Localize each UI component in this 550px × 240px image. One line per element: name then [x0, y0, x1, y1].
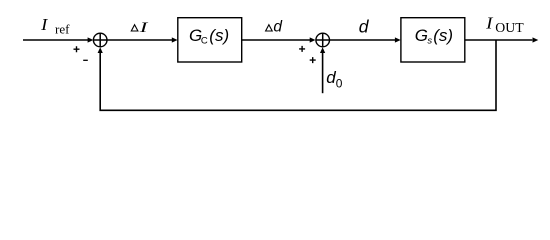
- plus sign at S1 input: [74, 46, 80, 52]
- label delta-I: [131, 25, 138, 31]
- svg-text:C: C: [201, 36, 208, 47]
- wire: S1 to block GC: [107, 39, 172, 41]
- wire: GC to summing junction S2: [242, 39, 310, 41]
- svg-text:s: s: [427, 36, 432, 47]
- svg-text:I: I: [138, 20, 149, 36]
- svg-text:d: d: [273, 19, 283, 36]
- summing junction S1: [93, 33, 107, 47]
- wire: feedback from output tap down, left, and up into S1: [100, 40, 496, 110]
- svg-text:0: 0: [336, 77, 343, 91]
- plus sign at S2 horizontal input: [299, 46, 305, 52]
- svg-text:(s): (s): [209, 26, 229, 45]
- block GS(s): [401, 18, 465, 62]
- svg-text:G: G: [415, 26, 428, 45]
- plus sign at S2 vertical input: [310, 57, 316, 63]
- label delta-d: [266, 25, 273, 31]
- wire: input I_ref into summing junction S1: [23, 39, 88, 41]
- wire: d0 input into S2: [322, 52, 324, 93]
- wire: output I_OUT: [465, 39, 533, 41]
- svg-text:(s): (s): [433, 26, 453, 45]
- minus sign at S1 feedback input: [83, 59, 88, 61]
- block GC(s): [178, 18, 242, 62]
- svg-text:d: d: [359, 17, 370, 37]
- svg-text:ref: ref: [55, 22, 70, 37]
- summing junction S2: [316, 33, 330, 47]
- svg-text:d: d: [326, 68, 336, 87]
- wire: S2 to block GS: [330, 39, 396, 41]
- svg-text:OUT: OUT: [495, 20, 524, 35]
